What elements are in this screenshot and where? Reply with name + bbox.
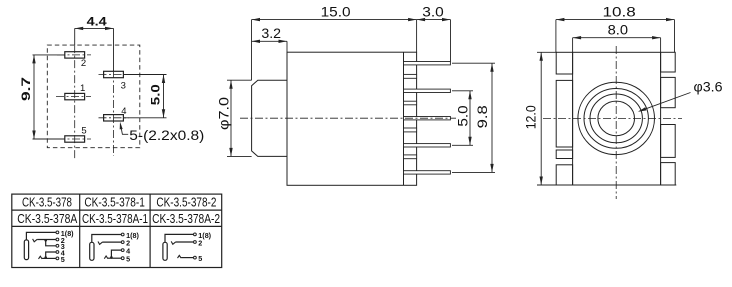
schematic CK-3.5-378-1: wire to terminal 4 — [111, 250, 121, 258]
svg-text:5: 5 — [126, 255, 130, 264]
schematic CK-3.5-378: terminal 5 — [56, 257, 59, 260]
schematic CK-3.5-378: terminal 1(8) — [56, 231, 59, 234]
svg-text:9.7: 9.7 — [19, 77, 33, 101]
dimension 3.2 (barrel length) — [252, 40, 288, 42]
schematic CK-3.5-378-1: terminal 2 — [121, 241, 124, 244]
svg-text:φ3.6: φ3.6 — [694, 79, 723, 95]
pad 2 — [65, 52, 85, 58]
dimension 5.0 (pads 3-4 spacing) — [163, 75, 165, 118]
centerline left pad column — [74, 45, 76, 159]
front view: main body — [573, 52, 661, 185]
svg-text:12.0: 12.0 — [522, 105, 538, 129]
svg-text:4: 4 — [121, 106, 126, 117]
schematic CK-3.5-378-1: tip spring contact — [98, 242, 103, 245]
left view: PCB pad layout dashed outline — [47, 45, 140, 148]
dimension 9.8 (pins 1-5 span) — [491, 63, 493, 172]
pad 1 — [65, 93, 85, 99]
schematic CK-3.5-378-1: terminal 4 — [121, 249, 124, 252]
front view: horizontal centerline — [543, 117, 682, 119]
pad 5 — [65, 136, 85, 142]
front view: left tab 1 — [556, 52, 572, 74]
front view: left tab 3 — [556, 150, 572, 159]
front view: right tab 4 — [661, 163, 676, 185]
svg-text:3.2: 3.2 — [261, 25, 281, 41]
side view: body outline — [287, 52, 417, 185]
front view: inner hole circle — [598, 101, 635, 136]
svg-text:9.8: 9.8 — [474, 105, 490, 128]
dimension 5.0 (pins 2-4 spacing) — [469, 91, 471, 146]
schematic CK-3.5-378-1: ring spring contact — [104, 256, 108, 259]
schematic CK-3.5-378-1: wire to terminal 1(8) — [92, 235, 121, 243]
svg-text:CK-3.5-378: CK-3.5-378 — [22, 195, 72, 209]
svg-text:5.0: 5.0 — [455, 105, 471, 127]
parts table frame — [12, 194, 222, 267]
svg-text:φ7.0: φ7.0 — [216, 97, 232, 130]
schematic CK-3.5-378-2: terminal 1(8) — [194, 233, 197, 236]
front view: vertical centerline — [615, 46, 617, 199]
centerline right pad column — [113, 70, 115, 156]
schematic CK-3.5-378-2: wire to terminal 1(8) — [165, 234, 193, 242]
side view: pin 1 — [404, 62, 451, 65]
svg-text:8.0: 8.0 — [608, 22, 629, 38]
svg-text:5: 5 — [198, 254, 202, 263]
schematic CK-3.5-378: junction on wire 2 — [44, 239, 47, 242]
front view: right tab 2 — [661, 77, 676, 107]
svg-text:5-(2.2x0.8): 5-(2.2x0.8) — [129, 128, 204, 143]
side view: horizontal centerline — [240, 117, 456, 119]
dimension 12.0 (body height) — [540, 52, 542, 185]
svg-text:CK-3.5-378-2: CK-3.5-378-2 — [156, 195, 216, 209]
side view: slot 2 in mounting strip — [404, 101, 417, 105]
side view: jack barrel (bushing) — [252, 80, 287, 156]
svg-text:5: 5 — [81, 126, 86, 137]
svg-text:CK-3.5-378-1: CK-3.5-378-1 — [84, 195, 145, 209]
schematic CK-3.5-378-1: junction on wire 5 — [110, 256, 113, 259]
centerline pad row 2 — [57, 54, 91, 56]
schematic CK-3.5-378-1: jack sleeve barrel — [90, 242, 94, 260]
centerline pad row 3 — [99, 74, 130, 76]
schematic CK-3.5-378-2: wire to terminal 5 — [181, 257, 193, 259]
svg-text:15.0: 15.0 — [321, 3, 351, 19]
dimension phi 3.6 (hole) leader — [639, 93, 690, 112]
front view: left tab 4 — [556, 165, 572, 185]
svg-text:CK-3.5-378A: CK-3.5-378A — [17, 212, 78, 226]
dimension phi 7.0 (barrel diameter) — [230, 80, 232, 156]
schematic CK-3.5-378: wire to terminal 4 — [46, 252, 56, 258]
dimension 15.0 (body length) — [252, 19, 417, 21]
svg-text:CK-3.5-378A-2: CK-3.5-378A-2 — [152, 212, 220, 226]
front view: bottom edge full width — [556, 184, 676, 186]
schematic CK-3.5-378-1: terminal 5 — [121, 257, 124, 260]
side view: slot 4 in mounting strip — [404, 155, 417, 159]
front view: right tab 3 — [661, 125, 676, 158]
svg-text:3.0: 3.0 — [422, 3, 444, 19]
schematic CK-3.5-378: wire to terminal 2 — [37, 239, 56, 241]
svg-text:4.4: 4.4 — [87, 15, 107, 29]
dimension 4.4 (pad column spacing) — [75, 27, 114, 29]
schematic CK-3.5-378-1: terminal 1(8) — [121, 233, 124, 236]
svg-text:3: 3 — [121, 80, 126, 91]
schematic CK-3.5-378-2: terminal 5 — [194, 256, 197, 259]
side view: pin 4 — [404, 144, 451, 147]
front view: circle 2 — [584, 89, 648, 149]
side view: pin 5 — [404, 171, 451, 174]
side view: body right inner line — [403, 52, 405, 185]
schematic CK-3.5-378-2: wire to terminal 2 — [176, 241, 194, 243]
pad 3 — [104, 71, 124, 77]
front view: left tab 2 — [556, 80, 572, 147]
schematic CK-3.5-378-2: tip spring contact — [171, 241, 176, 244]
side view: slot 3 in mounting strip — [404, 128, 417, 132]
pad size callout 5-(2.2x0.8) — [121, 125, 129, 135]
schematic CK-3.5-378: wire to terminal 1(8) — [26, 232, 55, 240]
svg-text:10.8: 10.8 — [603, 3, 636, 19]
schematic CK-3.5-378-2: jack sleeve barrel — [163, 242, 167, 260]
dimension 3.0 (pin length) — [417, 19, 451, 21]
schematic CK-3.5-378: wire to terminal 3 — [46, 240, 56, 246]
svg-text:2: 2 — [198, 238, 202, 247]
side view: pin 2 — [404, 89, 451, 92]
schematic CK-3.5-378: terminal 3 — [56, 244, 59, 247]
centerline pad row 1 — [56, 96, 91, 98]
schematic CK-3.5-378: terminal 4 — [56, 251, 59, 254]
svg-text:4: 4 — [126, 247, 130, 256]
schematic CK-3.5-378: junction on wire 5 — [44, 256, 47, 259]
front view: right tab 1 — [661, 52, 676, 72]
schematic CK-3.5-378-1: wire to terminal 5 — [108, 257, 121, 259]
centerline pad row 5 — [57, 138, 91, 140]
centerline pad row 4 — [99, 117, 130, 119]
dimension 8.0 (body width) — [573, 37, 661, 39]
dimension 9.7 (pad row span) — [33, 55, 35, 139]
side view: pin 3 — [404, 117, 451, 120]
svg-text:5.0: 5.0 — [149, 84, 163, 105]
svg-text:CK-3.5-378A-1: CK-3.5-378A-1 — [82, 212, 148, 226]
schematic CK-3.5-378: tip spring contact — [33, 239, 38, 242]
svg-text:1: 1 — [80, 83, 85, 94]
side view: slot 1 in mounting strip — [404, 74, 417, 78]
schematic CK-3.5-378: jack sleeve barrel — [24, 240, 28, 260]
schematic CK-3.5-378: terminal 2 — [56, 238, 59, 241]
schematic CK-3.5-378: wire to terminal 5 — [42, 257, 56, 259]
schematic CK-3.5-378-1: wire to terminal 2 — [103, 241, 122, 243]
svg-text:4: 4 — [61, 248, 65, 257]
front view: circle 3 — [590, 94, 642, 143]
pad 4 — [104, 115, 124, 121]
svg-text:2: 2 — [81, 58, 86, 69]
dimension 10.8 (overall width) — [556, 19, 675, 21]
front view: outer circle — [578, 82, 655, 154]
schematic CK-3.5-378: ring spring contact — [39, 256, 43, 259]
schematic CK-3.5-378-2: terminal 2 — [194, 241, 197, 244]
schematic CK-3.5-378-2: ring spring contact — [178, 255, 182, 258]
